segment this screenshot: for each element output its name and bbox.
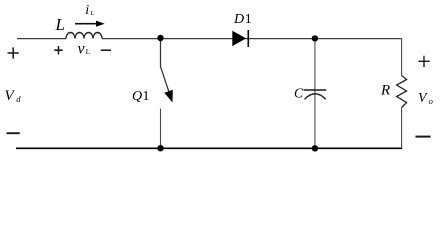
svg-text:R: R (380, 83, 390, 99)
svg-text:o: o (429, 96, 433, 106)
svg-text:L: L (91, 10, 95, 17)
svg-text:V: V (5, 88, 16, 104)
svg-text:1: 1 (143, 89, 150, 104)
svg-text:d: d (16, 94, 21, 104)
svg-text:D: D (233, 12, 244, 27)
svg-text:L: L (86, 48, 90, 56)
svg-text:V: V (418, 91, 428, 106)
svg-text:1: 1 (245, 12, 252, 27)
svg-text:i: i (85, 3, 89, 18)
svg-text:Q: Q (132, 89, 142, 104)
svg-text:v: v (78, 41, 86, 58)
svg-text:C: C (294, 86, 304, 101)
svg-text:L: L (55, 15, 65, 34)
